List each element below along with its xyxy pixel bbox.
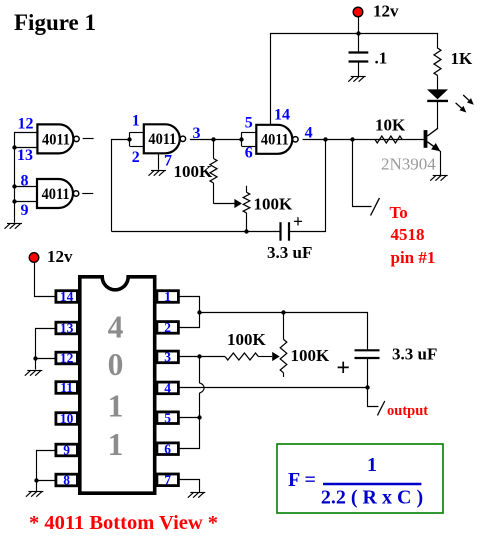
node junction pin 13 / rail <box>12 145 16 149</box>
svg-text:4011: 4011 <box>42 186 70 203</box>
wire pins 13/12 to ground <box>36 329 56 370</box>
wire pin 7 to ground <box>158 153 160 170</box>
node junction output <box>365 385 369 389</box>
ground pins 8/9 <box>26 492 44 497</box>
IC pin 9 (left) <box>56 443 78 458</box>
svg-text:12v: 12v <box>47 247 73 266</box>
wire pin 5 <box>179 417 199 419</box>
svg-text:12: 12 <box>60 351 74 366</box>
capacitor .1 (decoupling) <box>358 33 360 52</box>
node junction pin 9 / rail <box>12 199 16 203</box>
svg-text:4: 4 <box>108 310 124 345</box>
ground decoupling cap <box>348 77 366 82</box>
wire input bracket pins 1/2 <box>129 132 131 146</box>
svg-text:To: To <box>390 203 408 222</box>
wire pin 4 to output node <box>179 387 367 389</box>
transistor Q1 2N3904 <box>424 128 441 151</box>
svg-text:1: 1 <box>367 454 377 476</box>
wire pin 2 input <box>130 146 144 148</box>
wire gate B output pin 4 to 10K <box>303 139 424 141</box>
node junction pot bottom <box>244 229 248 233</box>
resistor 10K (base) <box>375 136 402 143</box>
IC pin 4 (right) <box>157 381 179 396</box>
wire gate output stub pin 10 <box>82 193 93 195</box>
svg-text:1: 1 <box>164 289 171 304</box>
svg-text:1: 1 <box>132 113 140 130</box>
svg-text:.1: .1 <box>375 49 388 68</box>
ground left rail <box>5 224 23 229</box>
LED D1 <box>427 89 448 99</box>
wire pins 9/8 to ground <box>37 451 56 492</box>
svg-text:5: 5 <box>164 410 171 425</box>
NAND gate U1A (4011) <box>144 124 186 153</box>
svg-text:12v: 12v <box>373 2 399 21</box>
node junction pin 8 / rail <box>12 184 16 188</box>
resistor 100K (timing) <box>213 139 215 158</box>
wire pins 1/2 bracket <box>180 297 200 328</box>
svg-text:100K: 100K <box>174 162 214 181</box>
svg-text:1: 1 <box>108 427 124 462</box>
NAND gate U1B (4011) <box>256 125 298 154</box>
power node 12v (DIP) <box>29 253 39 263</box>
wire +12v rail <box>271 34 438 125</box>
wire gate output stub pin 11 <box>83 138 94 140</box>
wire pin 7 to ground <box>180 480 200 493</box>
wire bottom feedback loop <box>112 231 281 233</box>
wire pin 5 input <box>242 132 257 134</box>
svg-text:3.3 uF: 3.3 uF <box>392 345 437 364</box>
svg-text:6: 6 <box>245 145 253 162</box>
svg-text:1: 1 <box>108 389 124 424</box>
svg-text:output: output <box>387 403 428 419</box>
svg-text:100K: 100K <box>291 346 331 365</box>
resistor 1K (LED) <box>434 48 441 76</box>
IC pin 2 (right) <box>157 320 179 335</box>
node junction pin 3 <box>197 354 201 358</box>
svg-text:13: 13 <box>60 321 74 336</box>
wire input bracket pins 5/6 <box>241 132 243 146</box>
svg-text:2: 2 <box>164 320 171 335</box>
svg-text:2.2 ( R x C ): 2.2 ( R x C ) <box>321 487 423 509</box>
IC pin 8 (left) <box>56 473 78 488</box>
potentiometer 100K (top circuit) <box>246 186 248 193</box>
node junction gate B input bracket <box>239 137 243 141</box>
wire pin 3 <box>179 356 225 358</box>
wire top net to cap <box>200 313 368 350</box>
IC pin 10 (left) <box>56 411 78 426</box>
node junction cap branch <box>323 137 327 141</box>
wire wiper arm bottom <box>258 356 272 358</box>
IC pin 12 (left) <box>56 351 78 366</box>
wire pin 9 input <box>14 201 37 203</box>
wire LED to collector <box>437 101 439 128</box>
svg-text:9: 9 <box>63 443 70 458</box>
LED light arrows <box>463 95 470 101</box>
wire pin3 net down to pins 5/6 with hop over pin4 <box>179 357 204 449</box>
svg-text:14: 14 <box>60 289 74 304</box>
svg-text:2: 2 <box>132 149 140 166</box>
svg-text:12: 12 <box>18 116 34 133</box>
node junction 100K tap <box>211 137 215 141</box>
IC pin 6 (right) <box>157 441 179 456</box>
svg-text:14: 14 <box>274 106 290 123</box>
node junction pin 12 <box>33 356 37 360</box>
capacitor 3.3 uF (timing) <box>279 222 281 241</box>
svg-text:100K: 100K <box>227 330 267 349</box>
wiper arrow bottom <box>272 352 280 361</box>
svg-text:+: + <box>336 355 350 381</box>
IC pin 7 (right) <box>157 472 179 487</box>
svg-text:8: 8 <box>21 173 29 190</box>
svg-text:2N3904: 2N3904 <box>381 155 436 174</box>
wiper arrow <box>234 199 242 208</box>
svg-text:100K: 100K <box>254 195 294 214</box>
wire 12v to pin 14 <box>35 263 56 297</box>
IC pin 14 (left) <box>56 289 78 304</box>
wire output stub <box>368 388 379 407</box>
svg-text:11: 11 <box>60 380 73 395</box>
IC body 4011 (bottom view) <box>80 277 155 493</box>
wire left ground rail <box>14 132 16 223</box>
wire gate A output pin 3 to gate B inputs <box>190 139 242 141</box>
svg-text:4: 4 <box>164 381 171 396</box>
node junction pins 1/2 <box>197 310 201 314</box>
connector break symbol (output) <box>378 401 385 416</box>
potentiometer 100K (bottom circuit) <box>283 313 285 340</box>
node junction To-4518 branch <box>350 137 354 141</box>
label 4011 vertical gray <box>108 310 124 463</box>
connector break symbol <box>371 198 380 216</box>
svg-text:4011: 4011 <box>261 132 289 149</box>
svg-text:8: 8 <box>63 473 70 488</box>
node junction pot top <box>281 310 285 314</box>
svg-text:3.3 uF: 3.3 uF <box>267 243 312 262</box>
IC pin 5 (right) <box>157 410 179 425</box>
svg-text:7: 7 <box>164 472 171 487</box>
node junction pin 5 <box>197 415 201 419</box>
IC pin 1 (right) <box>157 289 179 304</box>
ground pins 12/13 <box>25 371 43 376</box>
svg-text:pin #1: pin #1 <box>391 248 436 267</box>
formula box F = 1 / 2.2(RxC) <box>277 444 443 513</box>
ground pin 7 <box>188 493 206 498</box>
IC pin 3 (right) <box>157 350 179 365</box>
ground gate A pin 7 <box>149 171 167 176</box>
svg-text:4011: 4011 <box>42 131 70 148</box>
ground emitter <box>430 176 448 181</box>
node junction decoupling cap <box>356 31 360 35</box>
wire feedback loop to gate A inputs <box>112 140 130 232</box>
wire wiper arm <box>214 203 235 205</box>
svg-text:4518: 4518 <box>391 225 425 244</box>
svg-text:10: 10 <box>60 411 74 426</box>
svg-text:+: + <box>293 212 303 232</box>
wire pin 12 input <box>14 132 37 134</box>
svg-text:Figure 1: Figure 1 <box>14 10 96 35</box>
svg-text:4: 4 <box>305 124 313 141</box>
IC pin 11 (left) <box>56 380 78 395</box>
svg-text:9: 9 <box>21 202 29 219</box>
svg-text:3: 3 <box>164 350 171 365</box>
svg-text:5: 5 <box>245 114 253 131</box>
wire pin 8 input <box>14 186 37 188</box>
svg-text:7: 7 <box>164 153 172 170</box>
wire cap to gate B output <box>290 140 326 232</box>
wire emitter to ground <box>440 151 442 176</box>
wire pin 13 input <box>14 147 37 149</box>
wire pin 1 input <box>130 132 144 134</box>
power node 12v (top) <box>358 17 360 33</box>
resistor 100K (bottom circuit) <box>225 353 258 360</box>
svg-text:* 4011 Bottom View *: * 4011 Bottom View * <box>29 512 218 534</box>
svg-text:0: 0 <box>108 347 124 382</box>
capacitor 3.3 uF (bottom circuit) <box>355 349 380 351</box>
node junction gate A inputs <box>127 137 131 141</box>
NAND gate U1 spare b (4011) <box>37 179 79 208</box>
NAND gate U1 spare a (4011) <box>37 124 79 153</box>
svg-text:13: 13 <box>17 147 33 164</box>
wire 1K to LED <box>437 76 439 90</box>
svg-text:1K: 1K <box>451 49 474 68</box>
IC pin 13 (left) <box>56 321 78 336</box>
wire pin 6 input <box>242 146 257 148</box>
node junction pin 8 <box>34 478 38 482</box>
svg-text:10K: 10K <box>375 116 406 135</box>
svg-text:6: 6 <box>164 441 171 456</box>
wire To 4518 branch <box>353 140 372 207</box>
svg-text:F =: F = <box>288 469 316 491</box>
svg-text:4011: 4011 <box>148 131 176 148</box>
